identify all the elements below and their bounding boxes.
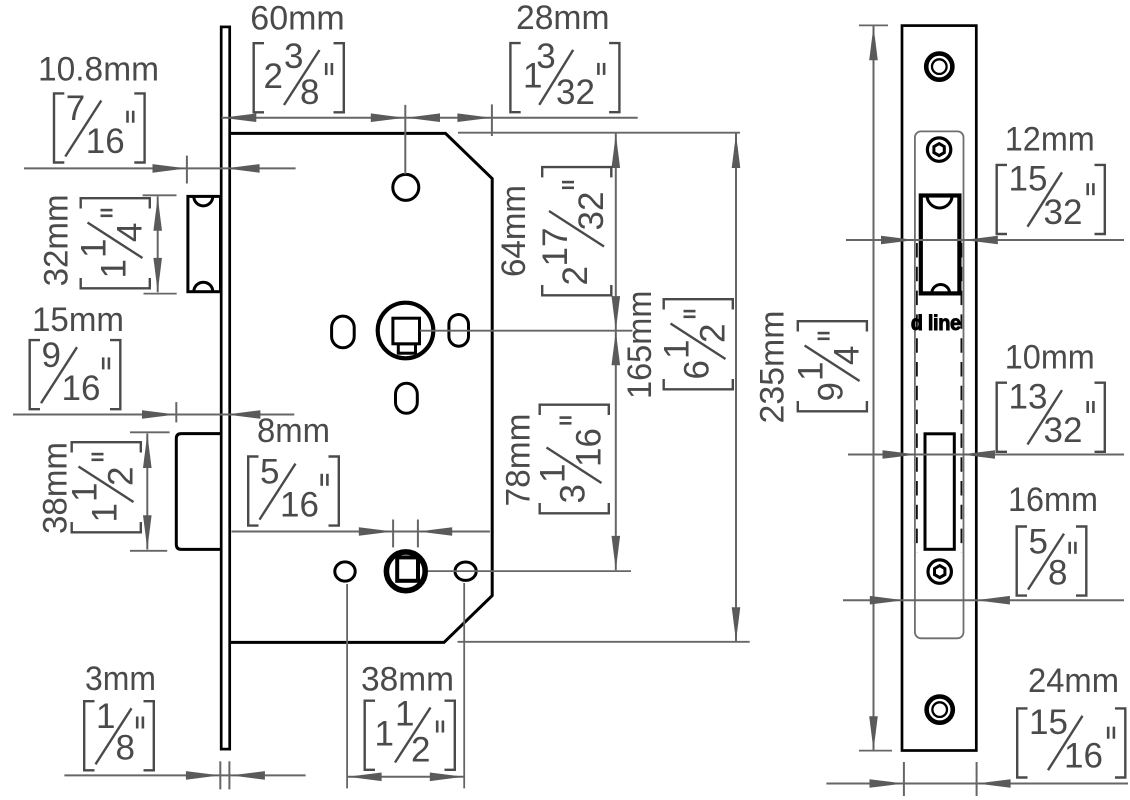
label 12mm [15/32 in] — [997, 120, 1105, 234]
dimension 10mm line — [848, 450, 1124, 459]
dimension 8mm (spindle) line — [232, 520, 490, 548]
svg-text:16: 16 — [570, 428, 609, 467]
spindle follower hub with square spindle hole — [378, 303, 434, 359]
label 16mm [5/8 in] — [1008, 481, 1098, 596]
extension of case bottom to right dims — [458, 641, 750, 643]
svg-text:2: 2 — [102, 467, 141, 486]
label 8mm [5/16 in] — [248, 412, 339, 526]
svg-text:15: 15 — [1009, 160, 1048, 199]
label 38mm [1 1/2 in] rotated — [37, 442, 141, 534]
svg-text:1: 1 — [658, 340, 697, 359]
mortise lock side view: faceplate — [221, 27, 230, 749]
svg-text:1: 1 — [86, 503, 125, 522]
faceplate front view outline — [902, 26, 976, 751]
label 64mm [2 17/32 in] rotated — [495, 167, 611, 295]
dimension 38mm (deadbolt height) — [130, 432, 170, 551]
label 3mm [1/8 in] — [84, 660, 156, 770]
svg-text:38mm: 38mm — [361, 661, 454, 699]
slotted holes beside follower — [332, 315, 469, 348]
extension of case top to right dims — [458, 132, 740, 134]
svg-text:32: 32 — [572, 192, 611, 231]
dimension 60mm / 28mm top line — [222, 104, 638, 174]
label 32mm [1 1/4 in] rotated — [38, 194, 150, 288]
svg-text:32: 32 — [556, 73, 595, 112]
svg-text:1: 1 — [375, 715, 394, 754]
label 165mm [6 1/2 in] rotated — [621, 291, 733, 399]
svg-text:1: 1 — [395, 695, 414, 734]
svg-text:78mm: 78mm — [500, 414, 538, 507]
svg-text:1: 1 — [66, 483, 105, 502]
dimension 165mm vertical line — [732, 133, 741, 641]
svg-text:13: 13 — [1009, 378, 1048, 417]
bottom follower hub (bold) with 8mm square hole — [386, 552, 425, 591]
recessed insert plate (rounded rect) — [915, 131, 964, 638]
dimension 32mm (latch height) — [143, 195, 177, 293]
dimension 10.8mm line — [24, 156, 296, 184]
bottom follower centre line — [428, 570, 631, 572]
svg-text:165mm: 165mm — [621, 291, 659, 399]
svg-text:2: 2 — [694, 324, 733, 343]
svg-text:9: 9 — [812, 382, 851, 401]
svg-text:16: 16 — [280, 485, 319, 524]
svg-text:8: 8 — [1048, 554, 1067, 593]
svg-text:d line: d line — [911, 311, 961, 335]
svg-text:5: 5 — [260, 452, 279, 491]
dimension 235mm vertical line — [859, 25, 892, 750]
svg-text:6: 6 — [678, 360, 717, 379]
svg-text:4: 4 — [828, 346, 867, 365]
lock case outline with chamfered right corners — [230, 133, 493, 642]
svg-text:64mm: 64mm — [495, 185, 533, 277]
svg-text:4: 4 — [111, 223, 150, 242]
svg-text:16mm: 16mm — [1008, 481, 1098, 519]
svg-text:32mm: 32mm — [38, 194, 76, 286]
slotted hole below follower — [396, 383, 418, 413]
svg-text:5: 5 — [1029, 522, 1048, 561]
lower hex socket screw — [928, 560, 951, 583]
hidden lock case edges (dashed) — [917, 243, 962, 553]
latch bolt cutout (bold) with rollers — [921, 196, 960, 294]
dimension 38mm (screw hole spacing) — [347, 583, 464, 788]
follower centre line — [420, 330, 632, 332]
label 38mm [1 1/2 in] bottom — [361, 661, 455, 770]
svg-text:3: 3 — [554, 484, 593, 503]
label 24mm [15/16 in] — [1017, 662, 1125, 778]
svg-text:8mm: 8mm — [257, 412, 330, 450]
svg-text:17: 17 — [536, 228, 575, 267]
svg-text:1: 1 — [95, 259, 134, 278]
deadbolt (side view) — [176, 434, 220, 550]
svg-text:15: 15 — [1029, 703, 1068, 742]
dimension 3mm (faceplate thickness) — [64, 761, 305, 789]
svg-text:8: 8 — [116, 728, 135, 767]
svg-text:16: 16 — [1064, 737, 1103, 776]
svg-text:1: 1 — [96, 697, 115, 736]
label 235mm [9 1/4 in] rotated — [754, 311, 867, 424]
svg-text:60mm: 60mm — [250, 0, 344, 38]
label 10.8mm [7/16 in] — [38, 51, 159, 163]
svg-text:9: 9 — [42, 336, 61, 375]
svg-text:32: 32 — [1044, 411, 1083, 450]
svg-text:7: 7 — [66, 89, 85, 128]
upper mounting hole — [393, 174, 419, 200]
dimension 15mm line — [13, 402, 294, 422]
svg-text:1: 1 — [792, 362, 831, 381]
top fixing screw hole — [926, 54, 952, 80]
svg-text:2: 2 — [556, 266, 595, 285]
svg-text:24mm: 24mm — [1028, 662, 1119, 700]
svg-text:28mm: 28mm — [516, 0, 610, 37]
svg-text:1: 1 — [534, 464, 573, 483]
latch bolt (side view) with guide notches — [188, 196, 221, 291]
dimension 64mm / 78mm vertical line — [612, 133, 621, 570]
dimension 24mm line — [826, 762, 1128, 796]
label 10mm [13/32 in] — [997, 339, 1105, 452]
bottom fixing screw hole — [927, 697, 953, 723]
svg-text:8: 8 — [300, 73, 319, 112]
upper hex socket screw — [927, 138, 950, 161]
dimension 12mm line — [846, 236, 1124, 245]
svg-text:32: 32 — [1044, 193, 1083, 232]
dimension 16mm line — [843, 596, 1124, 605]
svg-text:10mm: 10mm — [1005, 339, 1095, 377]
label 60mm [2 3/8 in] — [250, 0, 344, 112]
screw holes beside bottom follower — [335, 562, 476, 581]
label 78mm [3 1/16 in] rotated — [500, 405, 609, 514]
svg-text:235mm: 235mm — [754, 311, 792, 424]
svg-text:16: 16 — [86, 122, 125, 161]
label 15mm [9/16 in] — [30, 301, 124, 409]
svg-text:16: 16 — [62, 369, 101, 408]
svg-text:10.8mm: 10.8mm — [38, 51, 159, 89]
svg-text:3mm: 3mm — [85, 660, 156, 698]
deadbolt cutout — [925, 434, 954, 550]
svg-text:15mm: 15mm — [32, 301, 124, 339]
svg-text:12mm: 12mm — [1005, 120, 1095, 158]
label 28mm [1 3/32 in] — [510, 0, 619, 112]
svg-text:2: 2 — [264, 57, 283, 96]
svg-text:3: 3 — [536, 37, 555, 76]
svg-text:3: 3 — [284, 37, 303, 76]
svg-text:2: 2 — [411, 731, 430, 770]
svg-text:1: 1 — [75, 239, 114, 258]
